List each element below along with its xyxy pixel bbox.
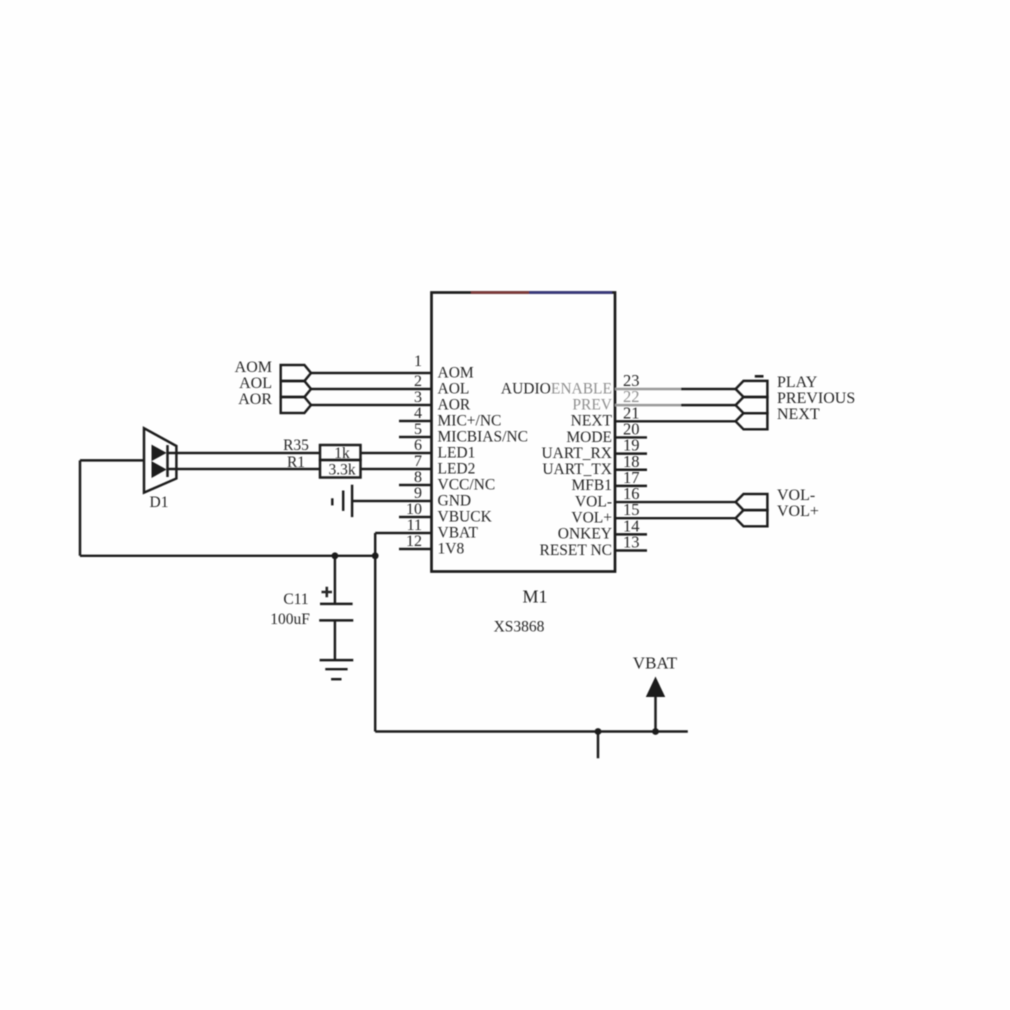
polarity minus mark above PLAY header [755,375,764,378]
ground symbol below C11 [320,660,354,679]
IC top edge blue highlight segment [529,291,612,294]
svg-text:2: 2 [414,373,422,390]
svg-text:AOM: AOM [438,364,474,381]
wire left rail vertical [79,460,81,555]
wire pin 21 to NEXT [615,420,736,422]
svg-text:VOL+: VOL+ [777,503,819,520]
svg-text:AOR: AOR [438,396,471,413]
connector J-left AOM/AOL/AOR header [281,365,311,381]
svg-text:AOL: AOL [239,375,272,392]
wire R35 to pin 6 [361,452,432,454]
wire R1 to pin 7 [361,468,432,470]
pin 18 stub [615,469,647,471]
VBAT power arrow [646,677,665,698]
pin 5 stub [399,436,432,438]
svg-text:NEXT: NEXT [777,406,820,423]
svg-text:XS3868: XS3868 [494,619,545,636]
svg-text:LED1: LED1 [438,444,476,461]
svg-text:4: 4 [414,405,422,422]
wire D1 anode to left rail [80,459,144,461]
svg-text:MODE: MODE [566,429,612,446]
wire bottom-left horizontal net [80,555,375,557]
svg-text:6: 6 [414,437,422,454]
diode D1 lower LED triangle [152,461,167,478]
svg-text:PLAY: PLAY [777,374,818,391]
wire pin 22 to PREVIOUS [681,404,736,406]
wire pin 23 to PLAY [681,388,736,390]
svg-text:MICBIAS/NC: MICBIAS/NC [438,428,528,445]
svg-text:11: 11 [407,517,422,534]
svg-text:9: 9 [414,485,422,502]
svg-text:5: 5 [414,421,422,438]
wire pin 23 to PLAY (grey segment) [615,388,681,390]
svg-text:1V8: 1V8 [438,540,465,557]
svg-text:PREV: PREV [572,396,612,413]
svg-text:8: 8 [414,469,422,486]
svg-text:VBAT: VBAT [633,654,678,673]
pin 12 stub [399,548,432,550]
junction dot at hanging stub [595,728,602,735]
pin 17 stub [615,485,647,487]
wire pin 22 to PREVIOUS (grey segment) [615,404,681,406]
resistor R1 body [320,460,361,478]
pin 14 stub [615,533,647,535]
pin 8 stub [399,484,432,486]
pin 10 stub [399,516,432,518]
IC M1 XS3868 body [432,293,616,572]
svg-text:UART_RX: UART_RX [541,445,612,462]
junction dot at C11 tap [332,552,339,559]
svg-text:AOL: AOL [438,380,470,397]
pin 13 stub [615,549,647,551]
capacitor C11 negative plate [319,619,353,621]
wire pin 11 vertical down [374,533,376,732]
svg-text:7: 7 [414,453,422,470]
svg-text:3: 3 [414,389,422,406]
svg-text:VCC/NC: VCC/NC [438,476,496,493]
diode D1 package outline [144,428,176,492]
junction dot at VBAT arrow [652,728,659,735]
svg-text:UART_TX: UART_TX [542,461,612,478]
wire pin 11 VBAT horizontal [375,532,431,534]
resistor R35 body [320,445,361,460]
diode D1 upper LED triangle [152,445,167,462]
wire ground symbol to pin 9 [352,500,431,502]
wire VBAT arrow lead [654,696,656,732]
connector J-right VOL-/VOL+ header [736,494,768,510]
wire pin 15 to VOL+ [615,517,736,519]
IC top edge red highlight segment [471,291,529,294]
wire bottom horizontal net to VBAT [375,730,688,732]
svg-text:LED2: LED2 [438,460,476,477]
svg-text:ONKEY: ONKEY [558,526,612,543]
pin 20 stub [615,436,647,438]
svg-text:D1: D1 [150,494,169,511]
svg-text:GND: GND [438,492,472,509]
svg-text:MIC+/NC: MIC+/NC [438,412,502,429]
svg-text:AOM: AOM [235,359,272,376]
svg-text:VBUCK: VBUCK [438,508,493,525]
pin 19 stub [615,452,647,454]
svg-text:M1: M1 [522,587,547,607]
svg-text:AOR: AOR [238,391,272,408]
svg-text:NEXT: NEXT [571,413,613,430]
svg-text:AUDIOENABLE: AUDIOENABLE [501,380,612,397]
wire pin 1 to AOM connector [311,372,432,374]
svg-text:12: 12 [406,533,422,550]
wire C11 bottom lead [334,620,336,660]
junction dot at VBAT rail [372,552,379,559]
svg-text:10: 10 [406,501,422,518]
svg-text:3.3k: 3.3k [328,462,355,479]
svg-text:VBAT: VBAT [438,524,479,541]
pin 4 stub [399,420,432,422]
wire pin 2 to AOL connector [311,388,432,390]
diode D1 cathode bar [166,445,168,477]
svg-text:MFB1: MFB1 [572,477,613,494]
wire pin 16 to VOL- [615,501,736,503]
svg-text:PREVIOUS: PREVIOUS [777,390,855,407]
svg-text:RESET NC: RESET NC [540,542,613,559]
wire pin 3 to AOR connector [311,404,432,406]
wire C11 top lead [334,556,336,604]
wire hanging stub down [597,732,599,759]
svg-text:R1: R1 [287,454,305,471]
svg-text:1: 1 [414,353,422,370]
capacitor C11 positive plate [320,603,353,605]
svg-text:100uF: 100uF [270,611,310,628]
capacitor C11 plus sign [322,587,333,598]
connector J-right PLAY/PREVIOUS/NEXT header [736,381,768,397]
wire D1 lower cathode to R1 [168,468,321,470]
ground symbol at pin 9 [332,485,352,517]
wire D1 upper cathode to R35 [168,452,321,454]
svg-text:R35: R35 [283,437,309,454]
svg-text:VOL-: VOL- [777,487,815,504]
svg-text:VOL-: VOL- [575,493,612,510]
svg-text:VOL+: VOL+ [571,510,612,527]
svg-text:C11: C11 [283,591,308,608]
